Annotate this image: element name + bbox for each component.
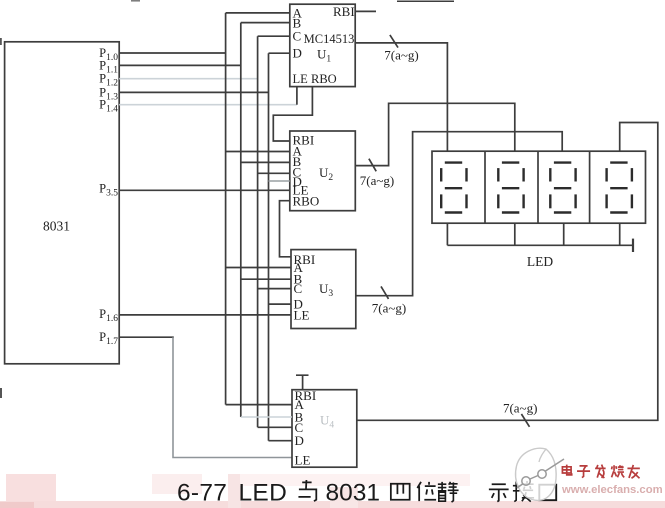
crop artifact left mark lower — [0, 388, 2, 398]
svg-text:6-77: 6-77 — [177, 480, 227, 507]
7-segment digit 4 — [607, 163, 632, 213]
IC U1 MC14513 — [290, 4, 355, 86]
wire P1.6 to U3 LE — [119, 314, 291, 316]
crop artifact left mark upper — [0, 38, 2, 45]
wire digit2 common — [514, 223, 516, 245]
wire C bus to U1 C — [258, 35, 290, 37]
caption char wei — [417, 482, 436, 501]
wire B bus to U1 B — [241, 22, 290, 24]
crop artifact top line — [397, 0, 454, 2]
caption char yu — [298, 480, 316, 501]
caption char si — [391, 484, 410, 500]
svg-text:LED: LED — [527, 254, 553, 269]
IC 8031 — [5, 42, 120, 364]
wire P3.5 to U2 LE — [119, 189, 290, 191]
caption char jing — [438, 482, 459, 502]
bus wire A vertical — [225, 13, 227, 405]
wire P1.3 to D bus — [119, 91, 268, 93]
watermark logo — [516, 448, 564, 500]
7-segment digit 3 — [550, 163, 575, 213]
ground terminal tick — [632, 239, 634, 252]
wire digit4 common — [619, 223, 621, 245]
caption char jie — [513, 481, 534, 502]
wire D bus to U1 D — [269, 52, 290, 54]
IC U3 — [291, 250, 356, 329]
svg-text:MC14513: MC14513 — [304, 32, 355, 46]
wire D bus to U3 D — [269, 303, 292, 305]
wire A bus to U2 A — [226, 151, 290, 153]
wire digit1 common — [446, 223, 448, 245]
wire C bus to U2 C — [258, 172, 290, 174]
wire B bus to U4 B (faint) — [241, 416, 292, 418]
wire D bus to U2 D (light) — [269, 180, 290, 182]
bus slash U2 — [369, 159, 376, 172]
wire U2 output bus to digit 2 — [355, 103, 515, 165]
wire U1 output bus to digit 1 — [355, 43, 447, 151]
wire U1 RBI stub — [355, 10, 376, 12]
wire C bus to U4 C — [258, 426, 292, 428]
svg-text:8031: 8031 — [326, 480, 381, 507]
wire P1.7 to U4 LE — [119, 336, 174, 338]
caption char shi — [489, 484, 509, 501]
watermark text dianzifashaoyou — [562, 465, 639, 479]
svg-text:LE: LE — [295, 452, 311, 467]
svg-text:7(a~g): 7(a~g) — [372, 301, 406, 316]
svg-text:C: C — [294, 281, 303, 296]
wire P1.2 to C bus (faint) — [119, 78, 257, 80]
wire U1 LE down to P1.4 — [296, 87, 298, 105]
bus wire B vertical — [240, 23, 242, 417]
IC U4 — [292, 390, 357, 468]
svg-text:8031: 8031 — [43, 219, 70, 234]
wire B bus to U2 B — [241, 161, 290, 163]
wire U1 RBO to U2 RBI — [273, 87, 312, 141]
wire U3 output bus to digit 3 — [356, 132, 562, 296]
bus slash U3 — [381, 286, 389, 299]
wire A bus to U4 A — [226, 404, 292, 406]
wire P1.4 to U1 LE (faint) — [119, 104, 297, 106]
wire A bus to U3 A — [226, 267, 291, 269]
crop artifact top tick — [131, 0, 140, 2]
svg-text:RBO: RBO — [311, 72, 337, 86]
caption char kou — [539, 485, 556, 501]
svg-text:RBI: RBI — [333, 4, 355, 19]
svg-text:7(a~g): 7(a~g) — [384, 48, 418, 63]
wire P1.1 to B bus — [119, 64, 241, 66]
RBI pull-up symbol U4 — [296, 375, 309, 390]
LED display divider 1 — [484, 151, 486, 223]
svg-text:7(a~g): 7(a~g) — [503, 401, 537, 416]
bus slash U1 — [390, 35, 398, 48]
svg-text:LE: LE — [294, 307, 310, 322]
wire digit3 common — [563, 223, 565, 245]
LED display outer box — [432, 151, 646, 223]
svg-text:D: D — [293, 46, 302, 61]
svg-text:C: C — [293, 29, 302, 44]
wire A bus to U1 A — [226, 12, 290, 14]
common cathode wire — [447, 244, 633, 246]
svg-text:LED: LED — [239, 480, 288, 507]
7-segment digit 1 — [441, 163, 466, 213]
svg-text:RBO: RBO — [293, 194, 320, 209]
7-segment digit 2 — [498, 163, 523, 213]
svg-text:LE: LE — [293, 72, 309, 86]
bus slash U4 — [521, 414, 529, 427]
svg-text:D: D — [295, 433, 304, 448]
svg-text:www.elecfans.com: www.elecfans.com — [561, 484, 663, 496]
wire U4 output bus to digit 4 — [357, 123, 658, 421]
bus wire D vertical — [268, 53, 270, 441]
svg-text:7(a~g): 7(a~g) — [360, 173, 394, 188]
wire C bus to U3 C — [258, 288, 291, 290]
wire D bus to U4 D — [269, 440, 293, 442]
LED display divider 3 — [589, 151, 591, 223]
LED display divider 2 — [537, 151, 539, 223]
bus wire C vertical — [257, 36, 259, 427]
wire P1.0 to A bus — [119, 52, 225, 54]
wire U2 RBO to U3 RBI — [280, 201, 292, 257]
wire B bus to U3 B — [241, 278, 291, 280]
IC U2 — [290, 131, 356, 211]
